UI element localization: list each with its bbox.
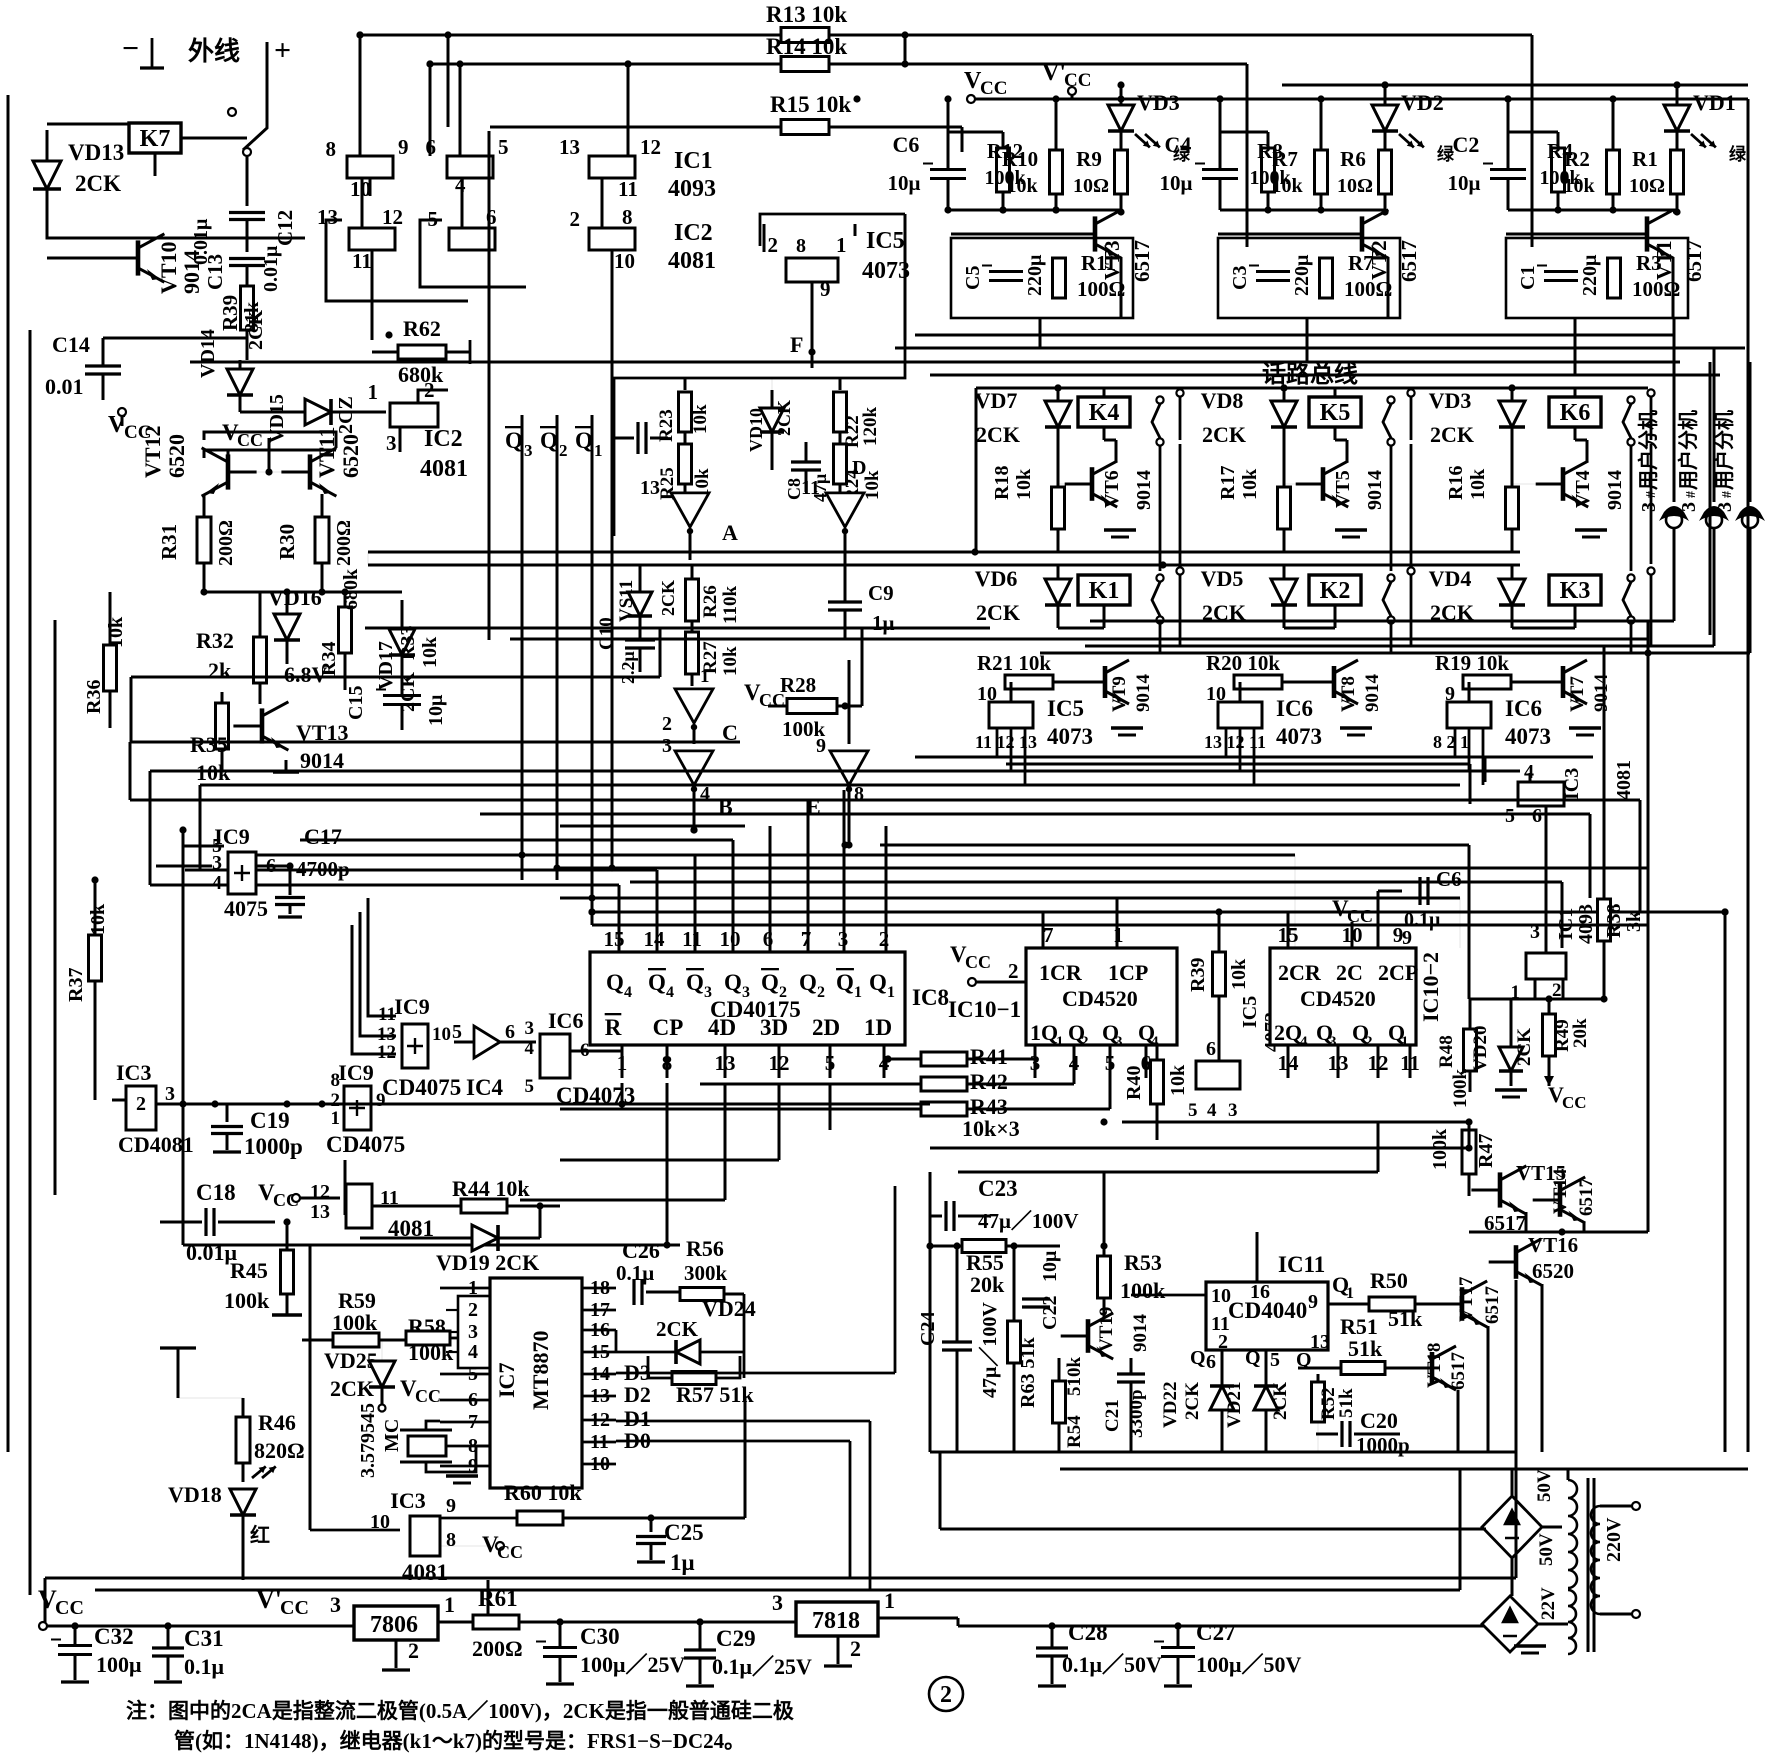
- inverter E: [830, 751, 868, 785]
- svg-text:V': V': [1042, 60, 1066, 86]
- svg-text:VD3: VD3: [1429, 388, 1472, 413]
- svg-text:1: 1: [1346, 1285, 1354, 1302]
- svg-text:Q: Q: [1245, 1347, 1261, 1369]
- resistor R22 120k: [834, 392, 847, 432]
- relay block frame top: [976, 387, 1648, 390]
- MT8870 ground pins: [446, 1474, 478, 1477]
- svg-text:2: 2: [940, 1682, 952, 1708]
- cluster box upper: [614, 340, 905, 536]
- svg-text:10: 10: [1211, 1285, 1231, 1307]
- relay K3: [1549, 575, 1601, 605]
- transistor VT16 6520: [1514, 1245, 1519, 1279]
- svg-text:R28: R28: [780, 673, 816, 697]
- svg-text:1: 1: [594, 441, 603, 460]
- svg-text:3: 3: [1329, 1034, 1337, 1050]
- verticals joining stair bundle: [129, 742, 132, 800]
- svg-text:R33: R33: [397, 626, 419, 660]
- transistor VT12 6520: [226, 454, 231, 489]
- resistor R37 10k: [89, 935, 102, 981]
- svg-text:10Ω: 10Ω: [1073, 175, 1109, 197]
- cell box: [951, 238, 1133, 318]
- right mesh horizontals: [560, 867, 1648, 870]
- mesh horizontals: [560, 825, 745, 828]
- svg-text:220μ: 220μ: [1579, 254, 1601, 296]
- svg-text:C1: C1: [1517, 266, 1539, 290]
- svg-text:1: 1: [884, 1588, 895, 1613]
- svg-text:IC3: IC3: [390, 1488, 425, 1513]
- svg-text:3D: 3D: [760, 1015, 788, 1040]
- svg-text:9: 9: [1402, 927, 1412, 949]
- svg-text:IC9: IC9: [338, 1060, 373, 1085]
- svg-text:2: 2: [570, 207, 581, 231]
- svg-text:1CP: 1CP: [1108, 960, 1148, 985]
- svg-text:VT16: VT16: [1528, 1233, 1578, 1257]
- CD40175 lower pin extensions: [621, 1083, 624, 1104]
- svg-text:K6: K6: [1560, 400, 1591, 426]
- svg-text:100Ω: 100Ω: [1344, 277, 1392, 301]
- wire from 7818 to caps C28 C27: [957, 1618, 960, 1626]
- resistor R38 3k: [1598, 899, 1611, 941]
- resistor R45 100k: [281, 1250, 294, 1294]
- svg-text:#: #: [1644, 491, 1659, 498]
- IC9 mid pin L-wires up to mesh: [368, 898, 396, 1016]
- svg-text:CC: CC: [55, 1597, 84, 1619]
- svg-text:IC5: IC5: [1239, 996, 1261, 1028]
- svg-text:C23: C23: [978, 1176, 1018, 1201]
- transistor VT5 9014: [1321, 467, 1326, 501]
- transistor VT19 9014: [1086, 1319, 1091, 1353]
- svg-text:4081: 4081: [1613, 760, 1635, 800]
- svg-text:220μ: 220μ: [1291, 254, 1313, 296]
- svg-text:C17: C17: [304, 824, 342, 849]
- svg-text:VT18: VT18: [1424, 1343, 1445, 1388]
- switch drop wires: [1630, 446, 1633, 571]
- resistor R53 100k: [1098, 1256, 1111, 1298]
- svg-text:4073: 4073: [862, 258, 910, 284]
- svg-text:47μ／100V: 47μ／100V: [978, 1302, 1001, 1398]
- transistor VT13 9014: [260, 708, 265, 743]
- svg-text:9: 9: [398, 135, 409, 159]
- wires IC9 top: [183, 845, 224, 848]
- svg-text:K2: K2: [1320, 578, 1351, 604]
- svg-text:MT8870: MT8870: [528, 1331, 553, 1410]
- svg-text:R2: R2: [1564, 147, 1590, 171]
- svg-text:CC: CC: [415, 1386, 441, 1406]
- svg-text:120k: 120k: [860, 407, 881, 447]
- cap C29 0.1u/25V: [684, 1648, 716, 1651]
- svg-text:9: 9: [1308, 1291, 1318, 1313]
- svg-text:3: 3: [525, 1018, 535, 1039]
- switch contacts row2: [1387, 574, 1394, 581]
- cap C8 47u: [791, 460, 821, 463]
- svg-text:3: 3: [1638, 502, 1660, 512]
- svg-text:CD4520: CD4520: [1300, 986, 1376, 1011]
- svg-text:6: 6: [1206, 1351, 1216, 1373]
- emitter wire into box: [1387, 257, 1390, 318]
- ground at bridge2: [1514, 1644, 1546, 1647]
- svg-text:9014: 9014: [300, 748, 344, 773]
- svg-text:R7: R7: [1348, 251, 1374, 275]
- svg-text:3300p: 3300p: [1126, 1389, 1147, 1438]
- resistor R12 100k: [997, 148, 1010, 192]
- svg-text:4073: 4073: [1276, 724, 1322, 749]
- svg-text:话路总线: 话路总线: [1262, 360, 1358, 388]
- IC7 MT8870 box: [490, 1278, 582, 1488]
- svg-text:100Ω: 100Ω: [1077, 277, 1125, 301]
- long wire 1104: [156, 1103, 930, 1106]
- svg-text:2: 2: [1218, 1331, 1228, 1353]
- svg-text:R23: R23: [656, 409, 677, 442]
- svg-text:1: 1: [887, 984, 895, 1001]
- svg-text:K5: K5: [1320, 400, 1351, 426]
- svg-text:C15: C15: [345, 686, 367, 720]
- svg-text:R39: R39: [1187, 958, 1209, 992]
- svg-text:51k: 51k: [1388, 1306, 1423, 1331]
- svg-text:10k×3: 10k×3: [962, 1116, 1020, 1141]
- svg-text:1: 1: [1401, 1034, 1409, 1050]
- svg-text:7: 7: [1043, 923, 1054, 947]
- resistor R39: [246, 266, 249, 286]
- svg-text:10μ: 10μ: [425, 694, 447, 726]
- long verticals from top gates: [429, 64, 432, 156]
- svg-text:VD5: VD5: [1201, 566, 1244, 591]
- svg-text:2CK: 2CK: [774, 400, 794, 436]
- svg-text:3: 3: [165, 1083, 175, 1105]
- svg-text:3: 3: [1228, 1100, 1238, 1121]
- relay K7: [129, 123, 181, 153]
- node wire: [1508, 209, 1677, 212]
- svg-text:1000p: 1000p: [244, 1134, 303, 1159]
- svg-text:K1: K1: [1089, 578, 1120, 604]
- feedback bracket around IC2a: [326, 220, 468, 301]
- svg-text:4: 4: [1300, 1034, 1308, 1050]
- svg-text:Q: Q: [761, 970, 779, 995]
- svg-text:6: 6: [505, 1021, 515, 1043]
- svg-text:CC: CC: [980, 78, 1007, 99]
- diode VD10 2CK: [760, 408, 784, 432]
- svg-text:1μ: 1μ: [872, 611, 895, 635]
- svg-text:10k: 10k: [1013, 468, 1035, 500]
- svg-text:Q: Q: [648, 970, 666, 995]
- svg-text:4081: 4081: [402, 1560, 448, 1585]
- svg-text:CD4075: CD4075: [326, 1132, 405, 1157]
- svg-text:3: 3: [1714, 502, 1736, 512]
- mesh right verticals: [1042, 912, 1045, 948]
- svg-text:R62: R62: [403, 316, 441, 341]
- svg-text:9: 9: [816, 735, 826, 757]
- svg-text:VD22: VD22: [1160, 1382, 1181, 1428]
- svg-text:9014: 9014: [1133, 674, 1154, 713]
- resistor R27 10k: [686, 632, 699, 674]
- svg-text:22V: 22V: [1538, 1587, 1559, 1620]
- svg-text:D: D: [852, 457, 866, 479]
- gate IC5 mid: [1196, 1061, 1240, 1089]
- svg-text:12: 12: [310, 1181, 330, 1203]
- mesh verticals to CD40175 pins: [618, 885, 621, 952]
- svg-text:MC: MC: [381, 1419, 403, 1452]
- gate IC3 left: [126, 1086, 156, 1130]
- inverter B: [675, 751, 713, 785]
- gate IC2d pins 1 2 3: [390, 403, 438, 427]
- bundle wires going right from left column: [130, 799, 330, 802]
- bus bundle under LED cells: [915, 334, 1674, 337]
- IC CD4520 first box: [1026, 948, 1177, 1045]
- svg-text:R44 10k: R44 10k: [452, 1176, 530, 1201]
- transistor VT3 6517: [1093, 216, 1098, 251]
- svg-text:10k: 10k: [1167, 1064, 1189, 1096]
- svg-text:VT14: VT14: [1550, 1168, 1571, 1214]
- svg-text:14: 14: [644, 927, 666, 951]
- wires under mid gates: [183, 1244, 680, 1247]
- transistor VT1 6517: [1645, 216, 1650, 251]
- svg-text:VD3: VD3: [1137, 90, 1180, 115]
- MT8870 left pins: [458, 1296, 490, 1368]
- resistor R30 200ohm: [315, 517, 329, 563]
- gate IC5 pins 2 8 1 out 9: [786, 258, 838, 282]
- transistor driver 9014: [1561, 666, 1566, 698]
- IC CD4520 second box: [1270, 948, 1416, 1045]
- svg-text:2CK: 2CK: [330, 1376, 374, 1401]
- emitter wire into box: [1120, 257, 1123, 318]
- cap C31 0.1u: [152, 1646, 184, 1649]
- svg-text:VD7: VD7: [975, 388, 1018, 413]
- transistor driver 9014: [1103, 666, 1108, 698]
- svg-text:R38: R38: [1603, 904, 1625, 938]
- svg-text:R56: R56: [686, 1236, 724, 1261]
- svg-text:9: 9: [376, 1090, 386, 1111]
- svg-text:F: F: [790, 332, 803, 357]
- svg-text:C2: C2: [1453, 132, 1480, 157]
- svg-text:R: R: [605, 1015, 622, 1040]
- svg-text:Q: Q: [505, 428, 523, 453]
- svg-text:8: 8: [446, 1529, 456, 1551]
- junction dots pass: [426, 60, 433, 67]
- svg-text:4073: 4073: [1047, 724, 1093, 749]
- svg-text:Q: Q: [540, 428, 558, 453]
- resistor R46 820ohm: [236, 1417, 250, 1463]
- svg-text:IC2: IC2: [424, 426, 463, 452]
- VCC rail wire: [975, 98, 1748, 101]
- gate IC2a: [349, 228, 395, 250]
- wire to right from 2CZ: [418, 390, 448, 403]
- svg-text:0.1μ／50V: 0.1μ／50V: [1062, 1652, 1162, 1677]
- svg-text:5: 5: [1505, 805, 1515, 827]
- svg-text:C27: C27: [1196, 1620, 1236, 1645]
- svg-text:R47: R47: [1475, 1134, 1497, 1168]
- resistor R25 10k: [679, 444, 692, 484]
- cap C6 10u: [930, 168, 966, 171]
- svg-text:10k: 10k: [1467, 468, 1489, 500]
- svg-text:6520: 6520: [1532, 1259, 1574, 1283]
- svg-text:VD1: VD1: [1693, 90, 1736, 115]
- svg-text:2: 2: [136, 1093, 146, 1115]
- svg-text:6520: 6520: [164, 434, 189, 478]
- svg-text:2: 2: [1008, 959, 1019, 983]
- wires transformer: [1511, 1558, 1514, 1596]
- switch contacts row2: [1627, 574, 1634, 581]
- vertical Q wires: [521, 415, 524, 880]
- svg-text:C31: C31: [184, 1626, 224, 1651]
- svg-text:CC: CC: [1562, 1093, 1587, 1112]
- svg-text:3: 3: [772, 1590, 783, 1615]
- resistor R11 100ohm: [1053, 258, 1066, 298]
- misc verticals top area: [904, 35, 907, 64]
- svg-text:R32: R32: [196, 628, 234, 653]
- cap C32 100u: [58, 1644, 92, 1647]
- stair bundle wires left-middle: [130, 741, 740, 744]
- svg-text:51k: 51k: [1348, 1336, 1383, 1361]
- resistor R36 10k: [104, 645, 117, 691]
- long bottom wires of osc: [930, 1451, 1516, 1454]
- svg-text:2: 2: [559, 441, 568, 460]
- IC11 CD4040: [1206, 1282, 1328, 1350]
- svg-text:VT8: VT8: [1338, 676, 1359, 712]
- svg-text:5: 5: [452, 1021, 462, 1043]
- svg-text:100μ／25V: 100μ／25V: [580, 1652, 685, 1677]
- transformer core: [1587, 1478, 1590, 1652]
- svg-text:R16: R16: [1445, 466, 1467, 500]
- svg-text:5: 5: [498, 135, 509, 159]
- svg-text:用户分机: 用户分机: [1712, 410, 1736, 490]
- svg-text:K3: K3: [1560, 578, 1591, 604]
- svg-text:3: 3: [212, 852, 222, 874]
- svg-text:2: 2: [424, 378, 435, 402]
- resistors R41 R42 R43: [921, 1052, 967, 1066]
- svg-text:10μ: 10μ: [1160, 171, 1193, 195]
- svg-text:3.579545: 3.579545: [357, 1403, 379, 1478]
- svg-text:5: 5: [525, 1076, 535, 1097]
- svg-text:R18: R18: [991, 466, 1013, 500]
- svg-text:Q: Q: [575, 428, 593, 453]
- cap C20 1000p: [1340, 1421, 1343, 1447]
- svg-text:2Q: 2Q: [1274, 1020, 1302, 1045]
- svg-text:R36: R36: [83, 680, 105, 714]
- right edge verticals: [1747, 99, 1750, 1452]
- svg-text:20k: 20k: [1570, 1018, 1591, 1048]
- svg-text:VD20: VD20: [1470, 1026, 1491, 1072]
- svg-text:9014: 9014: [1133, 470, 1155, 510]
- svg-text:100μ／50V: 100μ／50V: [1196, 1652, 1301, 1677]
- svg-text:3: 3: [662, 735, 672, 757]
- resistor R55 20k: [962, 1240, 1006, 1253]
- resistor R54 510k: [1053, 1381, 1066, 1423]
- svg-text:R7: R7: [1272, 147, 1298, 171]
- svg-text:C24: C24: [917, 1312, 939, 1346]
- svg-text:1: 1: [854, 984, 862, 1001]
- horizontal under R40: [930, 1147, 1469, 1150]
- svg-text:Q: Q: [1190, 1347, 1206, 1369]
- svg-text:R40: R40: [1123, 1066, 1145, 1100]
- svg-text:4081: 4081: [668, 248, 716, 274]
- svg-text:6520: 6520: [338, 434, 363, 478]
- switch drop wires: [1390, 446, 1393, 571]
- emitter wire into box: [1672, 257, 1675, 318]
- LED VD2: [1372, 105, 1398, 131]
- wire from K7 down: [154, 153, 157, 176]
- svg-text:外线: 外线: [188, 37, 240, 66]
- svg-text:4: 4: [624, 984, 632, 1001]
- svg-text:1: 1: [368, 380, 379, 404]
- svg-text:4: 4: [525, 1038, 535, 1059]
- svg-text:1D: 1D: [864, 1015, 892, 1040]
- svg-text:5: 5: [1188, 1100, 1198, 1121]
- svg-text:3: 3: [1115, 1034, 1123, 1050]
- svg-text:IC3: IC3: [116, 1060, 151, 1085]
- svg-text:0.01μ: 0.01μ: [260, 245, 282, 292]
- svg-text:R41: R41: [970, 1044, 1008, 1069]
- svg-text:CD4075: CD4075: [382, 1075, 461, 1100]
- svg-text:R54: R54: [1064, 1415, 1085, 1448]
- svg-text:红: 红: [250, 1523, 270, 1547]
- svg-text:9014: 9014: [1130, 1314, 1151, 1353]
- IC CD40175 box: [590, 952, 905, 1045]
- horizontal at y592 left: [204, 591, 402, 594]
- svg-text:10: 10: [614, 249, 635, 273]
- svg-text:100μ: 100μ: [96, 1652, 142, 1677]
- svg-text:10Ω: 10Ω: [1629, 175, 1665, 197]
- svg-text:11: 11: [682, 927, 702, 951]
- svg-text:50V: 50V: [1534, 1469, 1555, 1502]
- transistor VT4 9014: [1561, 467, 1566, 501]
- LED cell box drops: [1039, 318, 1042, 348]
- hook switch: [228, 108, 236, 116]
- cap C3 220u: [1256, 270, 1290, 273]
- svg-text:IC2: IC2: [674, 220, 713, 246]
- diode VD17 2CK: [389, 629, 415, 655]
- left verticals down to power rails: [130, 677, 133, 742]
- svg-text:IC3: IC3: [1561, 768, 1583, 800]
- resistor R10 10k: [1050, 150, 1063, 194]
- cell box: [1506, 238, 1688, 318]
- svg-text:VT9: VT9: [1109, 676, 1130, 712]
- svg-text:C30: C30: [580, 1624, 620, 1649]
- svg-text:10k: 10k: [1228, 958, 1250, 990]
- svg-text:CP: CP: [653, 1015, 684, 1040]
- svg-text:10k: 10k: [419, 636, 441, 668]
- svg-text:2k: 2k: [208, 658, 232, 683]
- svg-text:10: 10: [432, 1024, 451, 1045]
- svg-text:2: 2: [817, 984, 825, 1001]
- cap C6 0.1u right: [1418, 877, 1421, 905]
- svg-text:10k: 10k: [720, 646, 741, 676]
- svg-text:13: 13: [310, 1201, 330, 1223]
- node wire: [1220, 209, 1385, 212]
- svg-text:200Ω: 200Ω: [215, 520, 237, 566]
- relay K4: [1078, 397, 1130, 427]
- gate IC1a: [347, 156, 393, 178]
- svg-text:D2: D2: [624, 1382, 651, 1407]
- svg-text:4: 4: [1207, 1100, 1217, 1121]
- svg-text:4075: 4075: [224, 896, 268, 921]
- bottom long rails: [45, 1577, 1516, 1580]
- inverter C: [675, 689, 713, 723]
- svg-text:CC: CC: [280, 1597, 309, 1619]
- svg-text:Q: Q: [724, 970, 742, 995]
- resistor R2 10k: [1607, 150, 1620, 194]
- svg-text:IC7: IC7: [494, 1363, 519, 1398]
- svg-text:VT6: VT6: [1101, 470, 1123, 508]
- svg-text:Q: Q: [606, 970, 624, 995]
- feedback loop box: [648, 1356, 740, 1378]
- svg-text:R10: R10: [1002, 147, 1038, 171]
- transistor VT6 9014: [1090, 467, 1095, 501]
- gate IC2c: [589, 228, 635, 250]
- svg-text:VD19 2CK: VD19 2CK: [436, 1250, 539, 1275]
- svg-text:K7: K7: [140, 126, 171, 152]
- cap C19 1000p: [226, 1104, 229, 1122]
- svg-text:4093: 4093: [668, 176, 716, 202]
- svg-text:6: 6: [763, 927, 774, 951]
